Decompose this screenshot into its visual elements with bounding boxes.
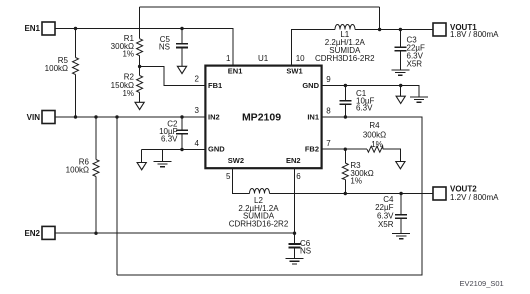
svg-text:10: 10 — [296, 54, 305, 63]
ground arrow below R4 — [396, 162, 405, 169]
svg-text:2: 2 — [195, 74, 200, 83]
node VIN loop junction — [115, 115, 118, 118]
svg-text:VIN: VIN — [27, 113, 41, 122]
svg-text:X5R: X5R — [378, 220, 394, 229]
ground hatch below C4 — [392, 234, 410, 239]
ground hatch below C3 — [392, 70, 410, 75]
svg-text:6.3V: 6.3V — [161, 135, 178, 144]
capacitor C6 — [294, 233, 296, 258]
node top rail to VOUT1 junction — [378, 28, 381, 31]
node pin 9 arrow junction — [399, 84, 402, 87]
svg-text:GND: GND — [208, 144, 225, 153]
svg-text:MP2109: MP2109 — [242, 112, 281, 124]
ground hatch below C6 — [286, 259, 304, 264]
svg-text:9: 9 — [326, 75, 331, 84]
wire VIN net — [55, 116, 205, 118]
svg-text:1: 1 — [226, 54, 231, 63]
svg-text:GND: GND — [302, 81, 319, 90]
svg-text:100kΩ: 100kΩ — [66, 166, 89, 175]
resistor R6 — [95, 117, 97, 233]
svg-text:U1: U1 — [258, 54, 269, 63]
node R5 top junction — [74, 27, 77, 30]
op-amp U1 (MP2109 IC body) — [205, 66, 321, 169]
node R3 bottom junction — [344, 192, 347, 195]
svg-text:NS: NS — [300, 247, 311, 256]
svg-text:5: 5 — [226, 172, 231, 181]
svg-text:1%: 1% — [371, 140, 383, 149]
port EN1 — [42, 22, 55, 35]
node R6 top junction — [94, 115, 97, 118]
node C4 top junction — [399, 192, 402, 195]
capacitor C5 — [181, 29, 183, 67]
svg-text:1%: 1% — [350, 177, 362, 186]
capacitor C1 — [344, 86, 346, 118]
svg-text:EN2: EN2 — [286, 156, 301, 165]
svg-text:IN1: IN1 — [307, 113, 319, 122]
ground arrow pin 4 — [137, 163, 146, 170]
wire L2 to VOUT2 — [270, 193, 434, 195]
ground hatch pin 9 — [410, 97, 428, 102]
node FB1 divider junction — [138, 65, 141, 68]
node C5 top junction — [180, 27, 183, 30]
svg-text:CDRH3D16-2R2: CDRH3D16-2R2 — [315, 54, 375, 63]
wire L1 to VOUT1 — [355, 29, 433, 31]
port VOUT2 — [433, 187, 446, 200]
node EN2 pin 6 junction — [293, 232, 296, 235]
port VOUT1 — [433, 23, 446, 36]
wire SW1 to L1 — [292, 30, 335, 66]
inductor L2 — [250, 189, 270, 194]
wire VOUT1 top rail — [140, 7, 380, 39]
wire FB1 to pin 2 — [140, 67, 206, 86]
svg-text:EN1: EN1 — [228, 66, 243, 75]
svg-text:7: 7 — [326, 139, 331, 148]
svg-text:FB1: FB1 — [208, 81, 222, 90]
resistor R5 — [75, 29, 77, 118]
svg-text:1.2V / 800mA: 1.2V / 800mA — [450, 193, 499, 202]
svg-text:8: 8 — [326, 106, 331, 115]
wire EN2 net — [55, 168, 295, 233]
ground hatch pin 4 — [154, 162, 172, 167]
svg-text:100kΩ: 100kΩ — [45, 64, 68, 73]
svg-text:6.3V: 6.3V — [356, 104, 373, 113]
svg-text:CDRH3D16-2R2: CDRH3D16-2R2 — [229, 219, 289, 228]
wire GND pin 4 — [142, 150, 206, 163]
port EN2 — [42, 226, 55, 239]
svg-text:EV2109_S01: EV2109_S01 — [460, 279, 504, 288]
capacitor C4 — [400, 194, 402, 234]
svg-text:EN1: EN1 — [24, 24, 40, 33]
svg-text:NS: NS — [159, 43, 170, 52]
wire IN1 loop — [117, 117, 422, 275]
node C2 top junction — [180, 115, 183, 118]
resistor R4 — [367, 146, 383, 152]
node FB2 divider junction — [344, 148, 347, 151]
inductor L1 — [335, 25, 355, 30]
svg-text:6: 6 — [296, 172, 301, 181]
resistor R2 — [137, 76, 143, 93]
node C2 bottom junction — [180, 148, 183, 151]
svg-text:3: 3 — [195, 106, 200, 115]
node R5 bottom junction — [74, 115, 77, 118]
ground arrow below C5 — [177, 66, 186, 73]
svg-text:FB2: FB2 — [305, 144, 319, 153]
wire GND pin 9 — [323, 86, 419, 98]
svg-text:300kΩ: 300kΩ — [363, 131, 386, 140]
svg-text:1%: 1% — [122, 50, 134, 59]
wire FB2 pin 7 — [323, 149, 401, 161]
resistor R3 — [344, 149, 346, 193]
node C3 top junction — [399, 28, 402, 31]
node C1 bottom junction — [344, 115, 347, 118]
capacitor C3 — [399, 30, 401, 71]
svg-text:R4: R4 — [369, 121, 380, 130]
wire SW2 to L2 — [233, 168, 250, 193]
svg-text:X5R: X5R — [407, 60, 423, 69]
capacitor C2 — [181, 117, 183, 150]
node C1 top junction — [344, 84, 347, 87]
svg-text:SW2: SW2 — [228, 156, 244, 165]
node R6 bottom junction — [94, 232, 97, 235]
svg-text:IN2: IN2 — [208, 113, 220, 122]
resistor R1 — [137, 39, 143, 56]
ground arrow pin 9 — [396, 96, 405, 103]
ground arrow below R2 — [135, 102, 144, 109]
wire VIN to bottom rail riser — [116, 117, 118, 275]
wire EN1 net — [55, 29, 233, 66]
svg-text:EN2: EN2 — [24, 229, 40, 238]
svg-text:1.8V / 800mA: 1.8V / 800mA — [450, 30, 499, 39]
svg-text:4: 4 — [195, 139, 200, 148]
svg-text:SW1: SW1 — [286, 66, 302, 75]
port VIN — [42, 111, 55, 124]
svg-text:1%: 1% — [122, 89, 134, 98]
